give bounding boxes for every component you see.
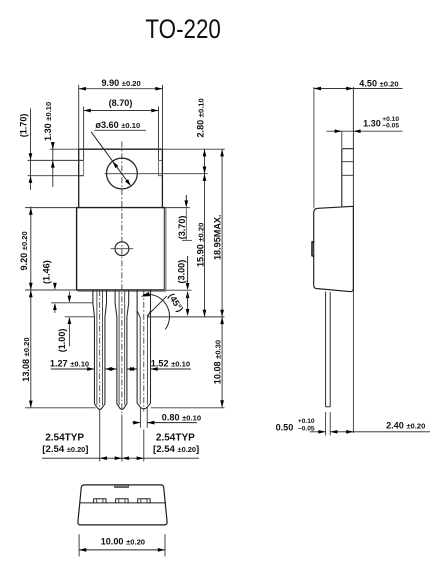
bottom view: lead 3 cross-section xyxy=(138,499,150,503)
ext line at lead tips right (y=407.8) xyxy=(151,407,225,409)
ext line lead chamfer end left (y=316.8) xyxy=(65,316,95,318)
svg-text:[2.54 ±0.20]: [2.54 ±0.20] xyxy=(153,444,199,455)
lead 1 (left) xyxy=(92,290,94,303)
svg-text:0.50: 0.50 xyxy=(276,422,294,432)
front view: tab right notch bottom xyxy=(159,175,163,177)
svg-text:0.80±0.10: 0.80±0.10 xyxy=(162,412,201,422)
svg-text:1.30: 1.30 xyxy=(363,118,381,128)
svg-text:13.08±0.20: 13.08±0.20 xyxy=(21,337,31,381)
svg-text:ø3.60±0.10: ø3.60±0.10 xyxy=(95,120,140,130)
side view: molded body outline xyxy=(314,206,354,291)
side view: tab (1.30 thick) xyxy=(342,148,354,150)
lead 3 (right) xyxy=(136,290,138,403)
45deg arc arrowhead xyxy=(141,292,150,297)
bottom view: package outline xyxy=(78,485,167,525)
leader arrowhead at hole upper-left xyxy=(113,161,119,168)
svg-text:10.00±0.20: 10.00±0.20 xyxy=(101,536,145,546)
lead1 center ext line xyxy=(99,411,101,462)
svg-text:9.20±0.20: 9.20±0.20 xyxy=(19,231,29,270)
dimple horizontal centerline xyxy=(111,248,134,250)
front view: body center dimple circle xyxy=(115,242,129,256)
svg-text:(1.46): (1.46) xyxy=(41,260,51,284)
svg-text:TO-220: TO-220 xyxy=(145,14,221,44)
svg-text:[2.54 ±0.20]: [2.54 ±0.20] xyxy=(42,444,88,455)
body right edge thick gray xyxy=(165,208,167,290)
bottom view: parting line xyxy=(80,502,166,504)
ext line body bottom right xyxy=(165,289,192,291)
svg-text:−0.05: −0.05 xyxy=(382,123,399,130)
svg-text:15.90±0.20: 15.90±0.20 xyxy=(195,223,205,267)
front view vertical centerline xyxy=(121,142,123,415)
side view: front face line xyxy=(352,87,354,292)
front view: molded body outline xyxy=(77,208,165,290)
ext line notch bottom (y=175.7) xyxy=(28,175,84,177)
svg-text:9.90±0.20: 9.90±0.20 xyxy=(102,78,141,88)
side view: notch line lower xyxy=(342,174,354,176)
front face ext line for 2.40 dim xyxy=(352,292,354,433)
svg-text:1.27±0.10: 1.27±0.10 xyxy=(50,358,89,368)
ext line notch top (y=160.4) xyxy=(28,159,84,161)
ext line tab back up to 1.30 dim xyxy=(341,131,343,148)
ext line tab top left (y=149.2) xyxy=(50,148,79,150)
front view: mounting tab outline xyxy=(79,149,163,207)
svg-text:(1.70): (1.70) xyxy=(19,114,29,138)
svg-text:18.95MAX.: 18.95MAX. xyxy=(213,215,223,261)
bottom view: lead 2 cross-section xyxy=(116,499,128,503)
front view: mounting hole (dia 3.60) xyxy=(107,158,138,189)
lead2 center ext line xyxy=(121,415,123,462)
svg-text:1.52±0.10: 1.52±0.10 xyxy=(151,358,190,368)
svg-text:(3.00): (3.00) xyxy=(177,260,187,284)
svg-text:(1.00): (1.00) xyxy=(57,329,67,353)
svg-text:1.30±0.10: 1.30±0.10 xyxy=(43,102,53,141)
side view: tab back ext/outline line xyxy=(313,87,315,208)
body bottom gray shadow xyxy=(78,290,166,292)
lead3 tip ext line right (0.80 dim) xyxy=(146,407,148,428)
ext line body top left xyxy=(25,207,77,209)
side view: lead xyxy=(325,292,327,407)
front view: tab right notch top xyxy=(159,159,163,161)
ext line lead shoulder end (y=302.8) xyxy=(51,302,93,304)
svg-text:2.40±0.20: 2.40±0.20 xyxy=(386,420,425,430)
ext line body bottom left xyxy=(25,289,77,291)
ext line lead tips left (y=407.8) xyxy=(25,407,96,409)
hole horizontal centerline ext to 2.80 dim xyxy=(105,173,208,175)
front view: tab left notch top xyxy=(79,159,84,161)
svg-text:2.54TYP: 2.54TYP xyxy=(156,433,195,444)
side view: back bump detail xyxy=(312,242,314,257)
lead3 center ext line xyxy=(143,430,145,462)
front view: tab left notch bottom xyxy=(79,175,84,177)
svg-text:2.54TYP: 2.54TYP xyxy=(45,433,84,444)
svg-text:(3.70): (3.70) xyxy=(177,216,187,240)
ext line body top right xyxy=(165,207,190,209)
svg-text:10.08±0.30: 10.08±0.30 xyxy=(213,340,223,384)
ext line at lead chamfer end (y=316.9) xyxy=(147,316,224,318)
lead3 tip ext line left (0.80 dim) xyxy=(139,407,141,428)
front view: tab left notch step xyxy=(83,160,85,175)
bottom view: index notch (gray) xyxy=(115,485,129,488)
svg-text:2.80±0.10: 2.80±0.10 xyxy=(195,98,205,137)
dimension (45 deg) chamfer angle arc xyxy=(147,296,166,316)
front view: tab right notch step xyxy=(158,160,160,175)
lead back ext line (0.50 dim) xyxy=(325,412,327,436)
lead 2 (center) xyxy=(114,290,116,303)
svg-text:−0.05: −0.05 xyxy=(298,425,315,432)
svg-text:(8.70): (8.70) xyxy=(109,98,133,108)
side view: notch line upper xyxy=(342,161,354,163)
svg-text:+0.10: +0.10 xyxy=(298,418,315,425)
svg-text:4.50±0.20: 4.50±0.20 xyxy=(359,79,398,89)
lead front ext line (0.50/2.40 dim) xyxy=(329,412,331,436)
2.54 pitch dimension line xyxy=(42,457,199,459)
bottom view: lead 1 cross-section xyxy=(94,499,106,503)
